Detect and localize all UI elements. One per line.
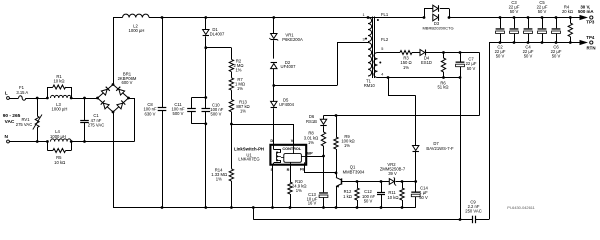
svg-text:39 V: 39 V xyxy=(388,171,397,176)
svg-text:3.15 A: 3.15 A xyxy=(16,90,28,95)
svg-text:TP4: TP4 xyxy=(586,35,595,40)
svg-text:4: 4 xyxy=(381,72,383,76)
svg-text:RM10: RM10 xyxy=(364,83,376,88)
svg-text:UF4004: UF4004 xyxy=(279,102,295,107)
svg-text:DL4007: DL4007 xyxy=(210,31,225,36)
svg-text:MMBT3904: MMBT3904 xyxy=(343,170,365,175)
svg-text:LinkSwitch-PH: LinkSwitch-PH xyxy=(234,146,264,151)
svg-text:10 kΩ: 10 kΩ xyxy=(53,79,64,84)
svg-text:N: N xyxy=(4,134,8,140)
svg-text:50 V: 50 V xyxy=(538,9,547,14)
svg-text:50 V: 50 V xyxy=(364,199,373,204)
svg-text:BP: BP xyxy=(307,151,313,156)
svg-text:TP3: TP3 xyxy=(586,20,595,25)
svg-text:P6KE200A: P6KE200A xyxy=(282,37,303,42)
svg-text:90 - 265: 90 - 265 xyxy=(3,113,21,119)
svg-text:1%: 1% xyxy=(403,65,409,70)
svg-text:1%: 1% xyxy=(296,188,302,193)
svg-text:3: 3 xyxy=(362,38,364,42)
svg-text:5: 5 xyxy=(381,47,383,51)
svg-text:1%: 1% xyxy=(240,108,246,113)
svg-text:275 VAC: 275 VAC xyxy=(88,123,104,128)
svg-text:50 V: 50 V xyxy=(510,9,519,14)
svg-text:RS1B: RS1B xyxy=(306,119,317,124)
svg-text:R: R xyxy=(287,167,290,172)
svg-text:1: 1 xyxy=(362,13,364,17)
svg-text:50 V: 50 V xyxy=(524,53,533,58)
svg-text:LNK407EG: LNK407EG xyxy=(238,156,259,161)
svg-text:16 V: 16 V xyxy=(308,201,317,206)
svg-text:1000 µH: 1000 µH xyxy=(129,28,145,33)
svg-text:BAV21WS-7-F: BAV21WS-7-F xyxy=(426,146,454,151)
svg-text:500 V: 500 V xyxy=(211,112,222,117)
svg-text:L: L xyxy=(5,91,8,97)
svg-text:250 VAC: 250 VAC xyxy=(465,209,481,214)
svg-text:VAC: VAC xyxy=(5,119,15,125)
svg-text:1%: 1% xyxy=(235,67,241,72)
svg-text:630 V: 630 V xyxy=(145,111,156,116)
svg-text:51 kΩ: 51 kΩ xyxy=(437,85,448,90)
svg-text:50 V: 50 V xyxy=(496,53,505,58)
svg-text:50 V: 50 V xyxy=(467,66,476,71)
svg-text:20 kΩ: 20 kΩ xyxy=(562,9,573,14)
svg-text:50 V: 50 V xyxy=(552,53,561,58)
svg-text:10 kΩ: 10 kΩ xyxy=(54,160,65,165)
svg-text:1%: 1% xyxy=(237,86,243,91)
svg-text:UF4007: UF4007 xyxy=(281,64,297,69)
svg-text:V: V xyxy=(291,138,294,143)
svg-text:CONTROL: CONTROL xyxy=(282,147,301,151)
svg-text:PI-6430-042611: PI-6430-042611 xyxy=(507,205,535,210)
svg-text:600 V: 600 V xyxy=(122,80,133,85)
svg-text:ES1D: ES1D xyxy=(421,60,432,65)
svg-text:FL2: FL2 xyxy=(381,37,389,42)
svg-text:FL1: FL1 xyxy=(381,12,389,17)
svg-text:1 kΩ: 1 kΩ xyxy=(343,194,352,199)
svg-text:1%: 1% xyxy=(216,177,222,182)
svg-text:S: S xyxy=(270,167,273,172)
svg-text:MBRB20200CTG: MBRB20200CTG xyxy=(422,26,453,31)
svg-text:275 VAC: 275 VAC xyxy=(16,122,32,127)
svg-text:RTN: RTN xyxy=(586,46,595,51)
svg-text:500 mA: 500 mA xyxy=(578,9,594,14)
svg-text:D: D xyxy=(270,138,273,143)
svg-text:1%: 1% xyxy=(344,143,350,148)
svg-text:1%: 1% xyxy=(308,140,314,145)
svg-text:10 kΩ: 10 kΩ xyxy=(387,195,398,200)
svg-text:50 V: 50 V xyxy=(419,195,428,200)
svg-text:500 V: 500 V xyxy=(173,111,184,116)
svg-text:1000 µH: 1000 µH xyxy=(52,107,68,112)
svg-text:1000 µH: 1000 µH xyxy=(50,134,66,139)
